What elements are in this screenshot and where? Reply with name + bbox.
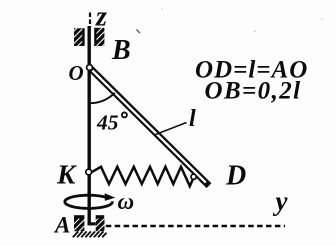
svg-text:ω: ω xyxy=(118,189,135,214)
spring attach circle at K xyxy=(86,169,92,175)
svg-text:l: l xyxy=(189,106,196,132)
scan speck xyxy=(321,18,322,19)
y axis dashed line xyxy=(106,225,285,228)
svg-text:A: A xyxy=(53,212,70,237)
svg-text:D: D xyxy=(225,161,246,192)
svg-text:B: B xyxy=(111,35,131,66)
bearing B left block xyxy=(74,28,85,46)
45 degree arc xyxy=(90,93,115,103)
scan speck xyxy=(254,30,256,32)
bearing B right block xyxy=(94,28,104,46)
z axis dashed line xyxy=(89,13,91,29)
bearing A right block xyxy=(96,215,105,231)
spring attach circle at rod near D xyxy=(191,174,196,179)
pivot O circle xyxy=(87,65,93,71)
omega arrowhead xyxy=(105,193,116,201)
shaft foot xyxy=(88,222,96,225)
svg-text:OB=0,2l: OB=0,2l xyxy=(205,78,302,105)
angular velocity ellipse arrow xyxy=(65,195,113,208)
svg-text:O: O xyxy=(69,61,84,85)
rod OD (double line) xyxy=(90,68,209,186)
ground hatch strokes xyxy=(73,231,107,237)
svg-text:45: 45 xyxy=(96,111,119,135)
svg-text:y: y xyxy=(273,186,289,216)
svg-text:K: K xyxy=(56,159,77,190)
scan speck xyxy=(137,30,141,34)
bearing A left block xyxy=(74,215,84,231)
vertical shaft AB xyxy=(87,26,90,225)
leader line for l xyxy=(156,123,187,135)
spring KD zigzag xyxy=(92,167,194,186)
scan speck xyxy=(161,8,162,9)
